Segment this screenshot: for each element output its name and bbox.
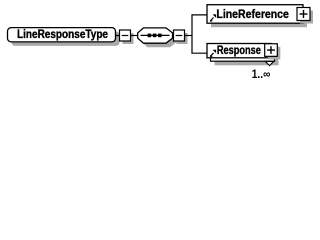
svg-text:Response: Response [217,43,261,57]
wire to trunk [185,35,193,37]
expand button (plus) on Response [265,44,281,60]
element Response (front box) [207,43,271,58]
reference arrow icon [210,18,214,21]
sequence compositor [138,28,177,47]
substitution marker triangle [265,61,273,65]
svg-text:1..∞: 1..∞ [252,67,271,81]
expand button (minus) on sequence [174,30,188,44]
reference arrow icon [210,53,214,56]
svg-text:LineReference: LineReference [216,7,289,21]
wire to LineReference [191,14,207,16]
element LineReference [207,5,307,28]
wire [131,35,139,37]
complexType LineResponseType [8,27,120,46]
expand button (minus) on LineResponseType [120,30,134,44]
wire to Response [191,52,207,54]
element Response (repeating, back box) [211,47,279,65]
expand button (plus) on LineReference [297,8,313,24]
svg-text:LineResponseType: LineResponseType [17,27,108,41]
trunk [191,15,193,53]
wire [116,35,121,37]
